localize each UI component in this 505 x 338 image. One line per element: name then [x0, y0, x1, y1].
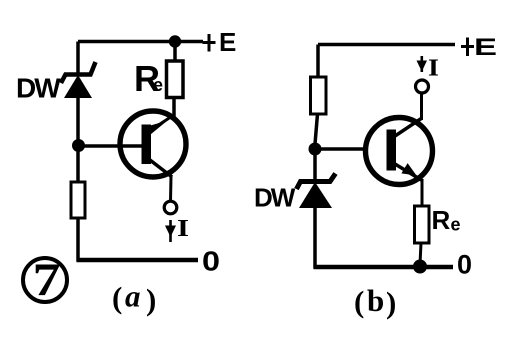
wire: (a) zener to base node — [76, 98, 80, 141]
zener diode DW (a): cathode bar with bent tabs — [61, 62, 96, 83]
zener diode DW (b): triangle — [299, 182, 332, 208]
wire: circuit (b) top rail +E — [318, 43, 455, 47]
transistor (a) circle — [120, 111, 186, 177]
node: (a) open output terminal — [164, 201, 177, 214]
svg-text:e: e — [451, 215, 461, 235]
wire: (a) base wire to transistor — [78, 144, 142, 148]
wire: (a) bottom rail to 0 terminal — [77, 258, 199, 263]
wire: (b) node down to zener — [313, 153, 317, 182]
transistor (b) circle — [366, 118, 433, 185]
svg-text:E: E — [219, 27, 236, 57]
resistor (b) upper-left box — [311, 77, 327, 114]
resistor (a) lower-left box — [71, 182, 85, 218]
svg-text:I: I — [428, 56, 439, 82]
svg-text:I: I — [177, 216, 189, 242]
wire: (b) emitter down to Re — [421, 180, 424, 207]
transistor (a) base bar — [142, 125, 152, 165]
wire: (b) terminal down to transistor — [420, 94, 423, 121]
resistor Re (a) box — [167, 61, 184, 98]
svg-text:b: b — [367, 283, 384, 318]
wire: (a) collector down to output terminal — [169, 176, 173, 201]
resistor Re (b) box — [415, 206, 430, 243]
wire: (a) rail dot down to Re — [173, 45, 177, 61]
wire: (b) Re down to bottom rail dot — [420, 243, 421, 264]
wire: (b) bottom rail to 0 terminal — [314, 265, 454, 270]
wire: circuit (a) top rail +E — [78, 40, 203, 44]
svg-text:0: 0 — [457, 250, 472, 280]
wire: (a) left branch from rail down to zener — [76, 42, 80, 77]
arrow: (a) output current I — [169, 220, 172, 242]
transistor (a) emitter lead with arrow (upper) — [151, 115, 175, 131]
wire: (b) resistor to base node — [315, 114, 318, 144]
svg-text:R: R — [432, 205, 451, 235]
svg-text:a: a — [125, 279, 141, 314]
svg-text:7: 7 — [33, 254, 61, 306]
transistor (b) emitter lead with arrow (lower) — [395, 164, 423, 181]
zener diode DW (a): triangle — [64, 75, 92, 98]
svg-text:0: 0 — [202, 246, 220, 277]
label: +E supply (a) plus sign — [203, 34, 216, 52]
wire: (b) zener to bottom rail corner — [313, 208, 317, 269]
svg-text:(: ( — [112, 280, 122, 315]
transistor (b) collector lead (upper) — [395, 118, 422, 136]
svg-text:): ) — [386, 285, 396, 320]
wire: (a) node down to lower resistor — [76, 150, 80, 182]
svg-text:DW: DW — [16, 73, 61, 104]
svg-text:): ) — [146, 282, 156, 317]
arrow: (b) input current I — [420, 56, 423, 72]
node: (a) base junction dot — [72, 139, 85, 152]
node: circuit (a) top rail junction dot — [169, 35, 181, 47]
label: circled 7 — [23, 258, 67, 302]
node: (b) bottom rail junction dot — [413, 260, 427, 274]
transistor (b) base bar — [387, 130, 397, 171]
svg-text:DW: DW — [254, 183, 296, 213]
wire: (b) base wire to transistor — [315, 147, 366, 151]
svg-text:E: E — [474, 34, 497, 61]
node: (b) base junction dot — [309, 143, 322, 156]
node: (b) open input terminal — [416, 80, 429, 93]
svg-text:e: e — [153, 75, 163, 95]
wire: (a) resistor to bottom rail corner — [76, 218, 80, 262]
wire: (a) Re down to transistor — [172, 98, 176, 118]
wire: (b) left branch from rail down — [316, 45, 320, 78]
transistor (a) collector lead (lower) — [150, 160, 172, 177]
label: +E supply (b) plus sign — [461, 38, 474, 57]
svg-text:(: ( — [354, 284, 364, 319]
zener diode DW (b): cathode bar with bent tabs — [297, 174, 336, 190]
